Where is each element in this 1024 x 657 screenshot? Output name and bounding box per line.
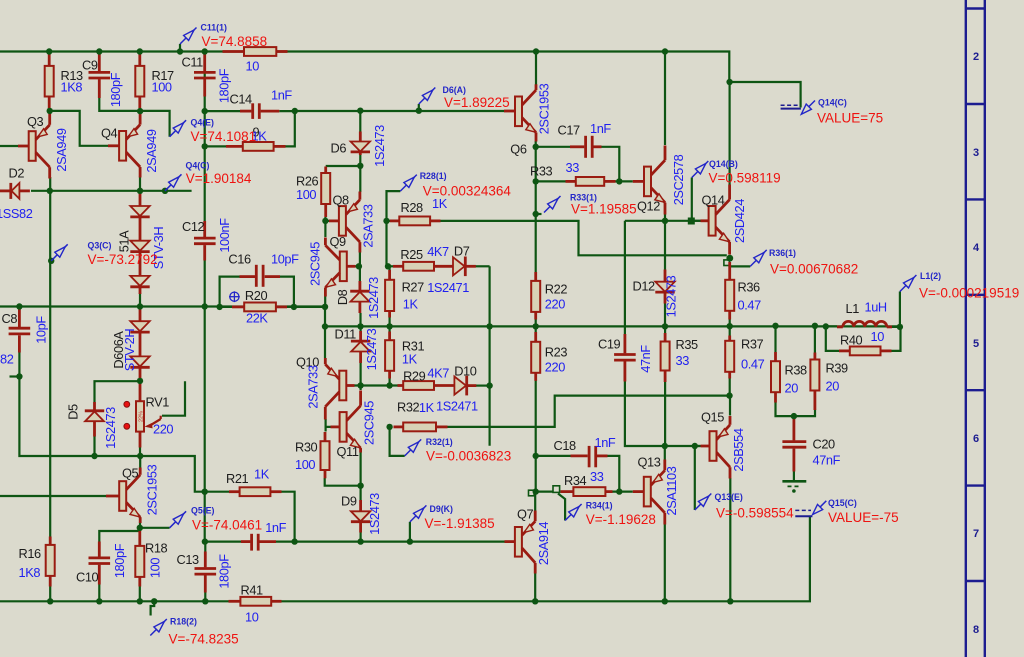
transistor Q3 bbox=[18, 112, 69, 179]
svg-text:R20: R20 bbox=[245, 288, 268, 303]
svg-text:2SC2578: 2SC2578 bbox=[671, 154, 686, 205]
wire R37 top stub bbox=[729, 326, 731, 335]
wire Q13 collector down bbox=[664, 524, 666, 601]
svg-text:2SA733: 2SA733 bbox=[306, 365, 321, 408]
svg-text:0.47: 0.47 bbox=[738, 298, 762, 313]
probe Q5(E) bbox=[170, 506, 263, 533]
svg-text:1SS82: 1SS82 bbox=[0, 206, 33, 221]
capacitor C8 bbox=[0, 308, 49, 367]
wire D7 right link bbox=[476, 265, 490, 267]
capacitor C20 bbox=[782, 418, 840, 472]
svg-text:C9: C9 bbox=[82, 58, 98, 73]
probe R34(1) bbox=[558, 494, 656, 528]
svg-text:33: 33 bbox=[590, 469, 604, 484]
wire row 541 left bbox=[205, 540, 241, 542]
svg-text:100: 100 bbox=[295, 457, 315, 472]
svg-text:V=0.00324364: V=0.00324364 bbox=[423, 184, 512, 199]
svg-text:V=74.8858: V=74.8858 bbox=[202, 34, 268, 49]
wire Q5 base row bbox=[0, 495, 106, 497]
svg-text:1nF: 1nF bbox=[590, 121, 611, 136]
transistor Q12 bbox=[633, 146, 686, 215]
svg-text:33: 33 bbox=[566, 160, 580, 175]
capacitor C15 1nF bbox=[241, 520, 287, 551]
diode D12 bbox=[633, 270, 679, 318]
svg-text:1S2473: 1S2473 bbox=[367, 493, 382, 535]
wire R38 top stub bbox=[774, 326, 776, 352]
wire R16 bottom to rail bbox=[49, 586, 51, 601]
resistor R38 bbox=[771, 352, 807, 403]
wire Q15 base stub bbox=[695, 445, 701, 447]
svg-text:R36: R36 bbox=[738, 280, 761, 295]
probe R33(1) bbox=[544, 193, 637, 217]
power terminal Q14C bbox=[781, 105, 801, 108]
svg-text:2SC945: 2SC945 bbox=[307, 242, 322, 286]
svg-text:1K: 1K bbox=[419, 400, 435, 415]
wire C9 bottom to Q4 emitter node bbox=[99, 97, 169, 137]
wire R19 left to C11 column bbox=[205, 145, 226, 147]
wire D10 right elbow column bbox=[489, 266, 491, 445]
svg-text:D2: D2 bbox=[9, 166, 25, 181]
svg-text:R22: R22 bbox=[545, 282, 568, 297]
resistor R40 bbox=[839, 329, 892, 355]
wire row385 Q10 base bbox=[354, 384, 398, 386]
svg-text:1S2473: 1S2473 bbox=[364, 328, 379, 370]
svg-text:V=-0.598554: V=-0.598554 bbox=[716, 506, 794, 521]
wire C18 left link bbox=[536, 455, 571, 457]
svg-text:220: 220 bbox=[545, 297, 565, 312]
wire Q13 emitter up bbox=[664, 446, 666, 460]
potentiometer RV1 bbox=[124, 382, 174, 448]
inductor L1 bbox=[837, 300, 892, 327]
wire Q12 emitter node bbox=[625, 220, 709, 222]
svg-text:C20: C20 bbox=[813, 437, 836, 452]
svg-text:1uH: 1uH bbox=[865, 300, 887, 315]
wire Q14 collector up bbox=[728, 82, 730, 185]
transistor Q13 bbox=[633, 455, 679, 525]
wire L1 probe stub bbox=[899, 292, 901, 327]
resistor R17 bbox=[135, 52, 174, 109]
svg-text:180pF: 180pF bbox=[108, 72, 123, 107]
svg-text:1S2473: 1S2473 bbox=[103, 407, 118, 449]
capacitor C13 bbox=[177, 552, 232, 593]
svg-text:R27: R27 bbox=[402, 280, 425, 295]
svg-text:0.47: 0.47 bbox=[741, 357, 765, 372]
svg-text:V=-0.0036823: V=-0.0036823 bbox=[426, 449, 511, 464]
svg-text:C13: C13 bbox=[177, 552, 200, 567]
svg-text:1K8: 1K8 bbox=[19, 565, 41, 580]
svg-text:Q3: Q3 bbox=[27, 114, 44, 129]
svg-text:100: 100 bbox=[148, 558, 163, 578]
svg-text:Q15: Q15 bbox=[701, 410, 724, 425]
resistor R16 bbox=[19, 537, 55, 587]
svg-text:R18: R18 bbox=[145, 541, 168, 556]
svg-text:VALUE=75: VALUE=75 bbox=[817, 111, 883, 126]
svg-text:220: 220 bbox=[545, 360, 565, 375]
svg-text:10: 10 bbox=[246, 59, 260, 74]
wire Q9 collector stub bbox=[324, 221, 326, 237]
svg-text:4K7: 4K7 bbox=[427, 366, 449, 381]
svg-text:VALUE=-75: VALUE=-75 bbox=[828, 510, 899, 525]
svg-text:R34(1): R34(1) bbox=[586, 501, 613, 511]
svg-text:Q3(C): Q3(C) bbox=[88, 241, 112, 251]
svg-text:R38: R38 bbox=[785, 363, 808, 378]
svg-text:C17: C17 bbox=[558, 123, 581, 138]
svg-text:C12: C12 bbox=[182, 219, 205, 234]
svg-text:2SC1953: 2SC1953 bbox=[537, 83, 552, 134]
svg-text:Q12: Q12 bbox=[637, 199, 660, 214]
wire row 306 bbox=[0, 305, 325, 307]
svg-text:Q4: Q4 bbox=[101, 126, 118, 141]
wire R25 left link bbox=[387, 265, 394, 267]
power terminal Q15C bbox=[795, 510, 812, 516]
resistor R26 bbox=[296, 167, 330, 218]
wire Q3 collector column down to R16 bbox=[49, 177, 51, 537]
svg-text:C10: C10 bbox=[76, 570, 99, 585]
wire D6A probe stub bbox=[418, 104, 420, 111]
svg-text:1nF: 1nF bbox=[271, 88, 292, 103]
probe Q4(C) bbox=[165, 161, 252, 191]
wire D2 node row bbox=[31, 190, 192, 192]
svg-text:D12: D12 bbox=[633, 279, 656, 294]
capacitor C19 bbox=[598, 334, 653, 382]
wire R20 left lead link bbox=[220, 306, 232, 308]
svg-text:2SB554: 2SB554 bbox=[731, 428, 746, 471]
capacitor C17 bbox=[558, 121, 612, 158]
wire R33 right to Q12 base bbox=[615, 180, 633, 182]
wire Q12 collector up bbox=[664, 52, 666, 146]
svg-text:V=1.90184: V=1.90184 bbox=[186, 171, 252, 186]
wire bottom rail bbox=[0, 600, 229, 602]
svg-text:1K: 1K bbox=[254, 467, 270, 482]
svg-text:R16: R16 bbox=[19, 546, 42, 561]
wire Q5 collector stub bbox=[139, 456, 141, 468]
transistor Q5 bbox=[106, 464, 160, 523]
wire R39 top stub bbox=[814, 326, 816, 353]
resistor R23 bbox=[531, 332, 567, 381]
svg-text:V=-74.0461: V=-74.0461 bbox=[192, 518, 262, 533]
capacitor C12 bbox=[182, 218, 232, 261]
svg-text:Q14: Q14 bbox=[702, 193, 725, 208]
svg-text:R41: R41 bbox=[241, 583, 264, 598]
diode D6 bbox=[331, 125, 388, 167]
svg-text:V=-0.000219519: V=-0.000219519 bbox=[919, 286, 1019, 301]
wire RV1 bottom bbox=[139, 447, 141, 456]
svg-text:1K: 1K bbox=[402, 352, 418, 367]
wire R28 row to elbow bbox=[440, 221, 727, 255]
svg-text:2SD424: 2SD424 bbox=[732, 199, 747, 243]
transistor Q14 bbox=[701, 185, 748, 255]
wire Q7 collector down bbox=[534, 573, 536, 601]
svg-text:51A: 51A bbox=[116, 230, 131, 252]
wire D9 bottom bbox=[360, 532, 362, 542]
transistor Q10 bbox=[296, 355, 355, 420]
svg-text:22%: 22% bbox=[139, 411, 145, 422]
wire 82 ohm lead link bbox=[10, 375, 20, 377]
svg-text:5: 5 bbox=[973, 338, 979, 350]
wire R37 bottom to Q15 bbox=[729, 373, 731, 396]
svg-text:C19: C19 bbox=[598, 337, 621, 352]
svg-text:1nF: 1nF bbox=[595, 435, 616, 450]
svg-text:6: 6 bbox=[973, 433, 979, 445]
probe Q14(C) bbox=[801, 98, 883, 126]
wire R22 R23 column bbox=[535, 318, 537, 342]
svg-text:10: 10 bbox=[245, 610, 259, 625]
probe D9(K) bbox=[410, 504, 495, 531]
svg-text:2SA1103: 2SA1103 bbox=[664, 466, 679, 515]
wire R36 bottom bbox=[729, 312, 731, 326]
wire C19 column upper bbox=[624, 221, 626, 334]
resistor R19b value 10 in rail bbox=[223, 47, 288, 73]
wire C20 bottom to ground bbox=[793, 471, 795, 481]
svg-text:D6: D6 bbox=[331, 141, 347, 156]
wire R30 top stub bbox=[325, 427, 327, 432]
wire Q9 emitter down bbox=[324, 296, 326, 307]
wire D12 top bbox=[664, 221, 666, 270]
probe R36(1) bbox=[750, 248, 858, 277]
svg-text:Q5: Q5 bbox=[122, 466, 139, 481]
wire Q9 base link bbox=[356, 265, 359, 267]
svg-text:R32: R32 bbox=[397, 400, 420, 415]
svg-text:10pF: 10pF bbox=[34, 316, 49, 344]
sheet border vertical rules bbox=[965, 0, 967, 657]
wire top supply rail bbox=[0, 52, 801, 108]
resistor R28 bbox=[390, 196, 448, 225]
resistor R33 bbox=[530, 160, 616, 186]
svg-text:V=-1.91385: V=-1.91385 bbox=[425, 516, 495, 531]
transistor Q9 bbox=[307, 234, 355, 297]
svg-text:100nF: 100nF bbox=[217, 218, 232, 253]
diode stack STV-3H bbox=[116, 193, 166, 294]
transistor Q8 bbox=[329, 192, 376, 253]
resistor R39 bbox=[810, 353, 848, 411]
wire R34 left link bbox=[536, 491, 553, 493]
probe D6(A) bbox=[419, 85, 510, 110]
wire D11 bottom bbox=[360, 363, 362, 386]
svg-text:D5: D5 bbox=[65, 404, 80, 420]
probe Q15(C) bbox=[813, 498, 899, 525]
wire Q13E probe stub bbox=[694, 446, 696, 510]
svg-text:1nF: 1nF bbox=[265, 520, 286, 535]
wire R28 left vertical bbox=[387, 191, 401, 266]
svg-text:V=74.1081: V=74.1081 bbox=[191, 129, 257, 144]
probe Q14(B) bbox=[692, 159, 781, 186]
svg-text:2SC1953: 2SC1953 bbox=[145, 464, 160, 515]
diode D2 bbox=[0, 166, 33, 222]
wire C11 column vertical bbox=[204, 52, 206, 222]
svg-text:R34: R34 bbox=[564, 473, 587, 488]
capacitor C14 bbox=[230, 88, 293, 119]
svg-text:C18: C18 bbox=[554, 438, 577, 453]
svg-text:180pF: 180pF bbox=[112, 543, 127, 578]
wire RV1 wiper box bbox=[162, 381, 185, 416]
wire Q5 emitter node bbox=[140, 523, 170, 528]
svg-text:R28: R28 bbox=[401, 200, 424, 215]
svg-text:Q13: Q13 bbox=[638, 455, 661, 470]
wire output row 326 bbox=[325, 325, 900, 327]
node Q14 emitter marker bbox=[724, 255, 733, 280]
wire Q3 base row bbox=[0, 145, 18, 147]
svg-text:V=1.89225: V=1.89225 bbox=[444, 95, 510, 110]
transistor Q7 bbox=[505, 507, 552, 574]
svg-text:D11: D11 bbox=[335, 327, 357, 342]
wire C17 right elbow bbox=[602, 147, 620, 182]
wire R27 top bbox=[389, 266, 391, 279]
wire R31 vertical links bbox=[389, 326, 391, 339]
transistor Q6 bbox=[504, 83, 552, 156]
wire Q3 emitter to Q4 base link bbox=[50, 111, 108, 146]
wire D9K probe stub bbox=[409, 522, 411, 542]
wire R36 probe stub bbox=[730, 265, 750, 267]
svg-text:D9(K): D9(K) bbox=[430, 504, 454, 514]
svg-text:8: 8 bbox=[973, 624, 979, 636]
svg-text:1K: 1K bbox=[403, 297, 419, 312]
resistor R34 bbox=[553, 469, 613, 496]
svg-text:STV-2H: STV-2H bbox=[122, 329, 137, 372]
svg-text:1S2473: 1S2473 bbox=[366, 277, 381, 319]
resistor R29 bbox=[398, 366, 455, 390]
wire R21 row bbox=[205, 491, 229, 493]
svg-text:R23: R23 bbox=[545, 345, 568, 360]
svg-text:L1(2): L1(2) bbox=[920, 271, 941, 281]
svg-text:R30: R30 bbox=[295, 440, 318, 455]
svg-text:C14: C14 bbox=[230, 91, 253, 106]
probe R18(2) bbox=[150, 617, 238, 647]
resistor R27 bbox=[385, 270, 424, 318]
wire R21 right loop down bbox=[281, 492, 295, 542]
node marker Q14 base bbox=[689, 218, 694, 223]
svg-text:D7: D7 bbox=[454, 244, 470, 259]
capacitor C16 with R20 bbox=[228, 252, 299, 287]
probe R28(1) bbox=[400, 171, 511, 199]
resistor R41 bbox=[229, 583, 282, 625]
svg-text:Q14(C): Q14(C) bbox=[818, 98, 847, 108]
resistor R30 bbox=[295, 432, 330, 478]
svg-text:22K: 22K bbox=[246, 311, 268, 326]
wire R32 left vertical probe bbox=[390, 427, 405, 456]
probe L1(2) bbox=[900, 271, 1019, 301]
wire D6 bottom to R26 Q8 bbox=[326, 166, 361, 192]
diode stack D606A STV-2H bbox=[111, 308, 150, 380]
ground bbox=[782, 481, 806, 493]
svg-text:R33: R33 bbox=[530, 164, 553, 179]
wire C18 right elbow bbox=[608, 456, 620, 492]
wire D12 bottom bbox=[664, 303, 666, 326]
wire R28 left lead link bbox=[387, 220, 391, 222]
svg-text:R35: R35 bbox=[676, 337, 699, 352]
svg-text:2SA949: 2SA949 bbox=[144, 129, 159, 172]
wire C13 top stub bbox=[204, 542, 206, 552]
svg-text:R28(1): R28(1) bbox=[420, 171, 447, 181]
svg-text:1S2473: 1S2473 bbox=[664, 275, 679, 317]
node Q7 emitter marker bbox=[529, 490, 535, 496]
svg-text:D10: D10 bbox=[454, 364, 477, 379]
wire R33 probe elbow bbox=[536, 213, 542, 215]
svg-text:R40: R40 bbox=[840, 333, 863, 348]
resistor R31 bbox=[385, 332, 424, 379]
diode D7 bbox=[427, 244, 476, 296]
wire R23 bottom column bbox=[535, 381, 537, 492]
diode D10 bbox=[436, 364, 478, 414]
wire R35 top stub bbox=[664, 326, 666, 333]
svg-text:V=-73.2792: V=-73.2792 bbox=[88, 252, 158, 267]
wire R33 left link bbox=[536, 180, 566, 182]
wire C11 bottom row to Q6 base bbox=[205, 110, 240, 112]
svg-text:R32(1): R32(1) bbox=[426, 437, 453, 447]
probe Q4(E) bbox=[170, 118, 257, 144]
diode D5 bbox=[65, 402, 118, 449]
transistor Q4 bbox=[101, 112, 159, 178]
wire D5 bottom bbox=[93, 436, 95, 456]
svg-text:R18(2): R18(2) bbox=[170, 617, 197, 627]
svg-text:V=-1.19628: V=-1.19628 bbox=[586, 512, 656, 527]
svg-text:D6(A): D6(A) bbox=[443, 85, 467, 95]
svg-text:R36(1): R36(1) bbox=[769, 248, 796, 258]
svg-text:100: 100 bbox=[296, 187, 316, 202]
wire Q7 emitter up bbox=[534, 492, 536, 511]
diode D11 bbox=[335, 327, 380, 371]
svg-text:Q14(B): Q14(B) bbox=[709, 159, 738, 169]
capacitor C9 bbox=[82, 52, 123, 108]
svg-text:82: 82 bbox=[0, 352, 14, 367]
wire D10 right link bbox=[476, 385, 490, 387]
wire Q12 emitter stub bbox=[664, 214, 666, 221]
wire C16 R20 box right bbox=[280, 277, 294, 307]
wire C14 right to R19 loop bbox=[279, 111, 295, 146]
resistor R19 bbox=[226, 125, 286, 151]
svg-text:2SA733: 2SA733 bbox=[361, 204, 376, 247]
svg-text:Q6: Q6 bbox=[510, 142, 527, 157]
transistor Q15 bbox=[701, 410, 747, 479]
wire Q11 collector stub bbox=[360, 386, 362, 391]
wire D11 links bbox=[360, 326, 362, 340]
wire D6 cathode stub bbox=[359, 154, 361, 167]
wire R20 right to Q9 base row bbox=[287, 306, 325, 308]
wire L1 left link bbox=[826, 325, 837, 327]
wire Q8 collector to Q9 base D8 column bbox=[359, 252, 361, 281]
svg-text:RV1: RV1 bbox=[146, 395, 170, 410]
svg-text:V=1.19585: V=1.19585 bbox=[571, 202, 637, 217]
svg-text:Q5(E): Q5(E) bbox=[191, 506, 215, 516]
svg-text:D9: D9 bbox=[341, 494, 357, 509]
svg-text:C16: C16 bbox=[228, 252, 251, 267]
wire C10 link bbox=[99, 528, 140, 542]
svg-text:C11: C11 bbox=[182, 55, 204, 70]
svg-text:R39: R39 bbox=[826, 361, 849, 376]
svg-text:33: 33 bbox=[676, 353, 690, 368]
svg-text:220: 220 bbox=[153, 422, 173, 437]
wire R34 right to Q13 base bbox=[612, 491, 633, 493]
wire Q15 emitter up bbox=[729, 396, 731, 416]
svg-text:R29: R29 bbox=[403, 369, 426, 384]
wire R18 bottom bbox=[139, 586, 141, 601]
wire Q14B probe stub bbox=[691, 178, 693, 219]
svg-text:Q11: Q11 bbox=[337, 444, 359, 459]
wire R32 right to row395 bbox=[447, 396, 730, 427]
wire C13 bottom bbox=[204, 592, 206, 601]
wire bottom rail right bbox=[281, 517, 810, 601]
svg-text:Q7: Q7 bbox=[517, 507, 534, 522]
svg-text:L1: L1 bbox=[846, 301, 860, 316]
wire row 111 to Q6 base bbox=[295, 110, 504, 112]
wire R27 bottom bbox=[389, 312, 391, 326]
wire D9 anode node bbox=[325, 478, 361, 500]
probe Q13(E) bbox=[695, 492, 794, 521]
svg-text:2SA949: 2SA949 bbox=[54, 128, 69, 171]
svg-text:V=0.598119: V=0.598119 bbox=[709, 171, 781, 186]
wire C17 left link bbox=[536, 146, 570, 148]
wire R35 bottom bbox=[664, 382, 666, 447]
resistor R18 bbox=[135, 531, 167, 587]
